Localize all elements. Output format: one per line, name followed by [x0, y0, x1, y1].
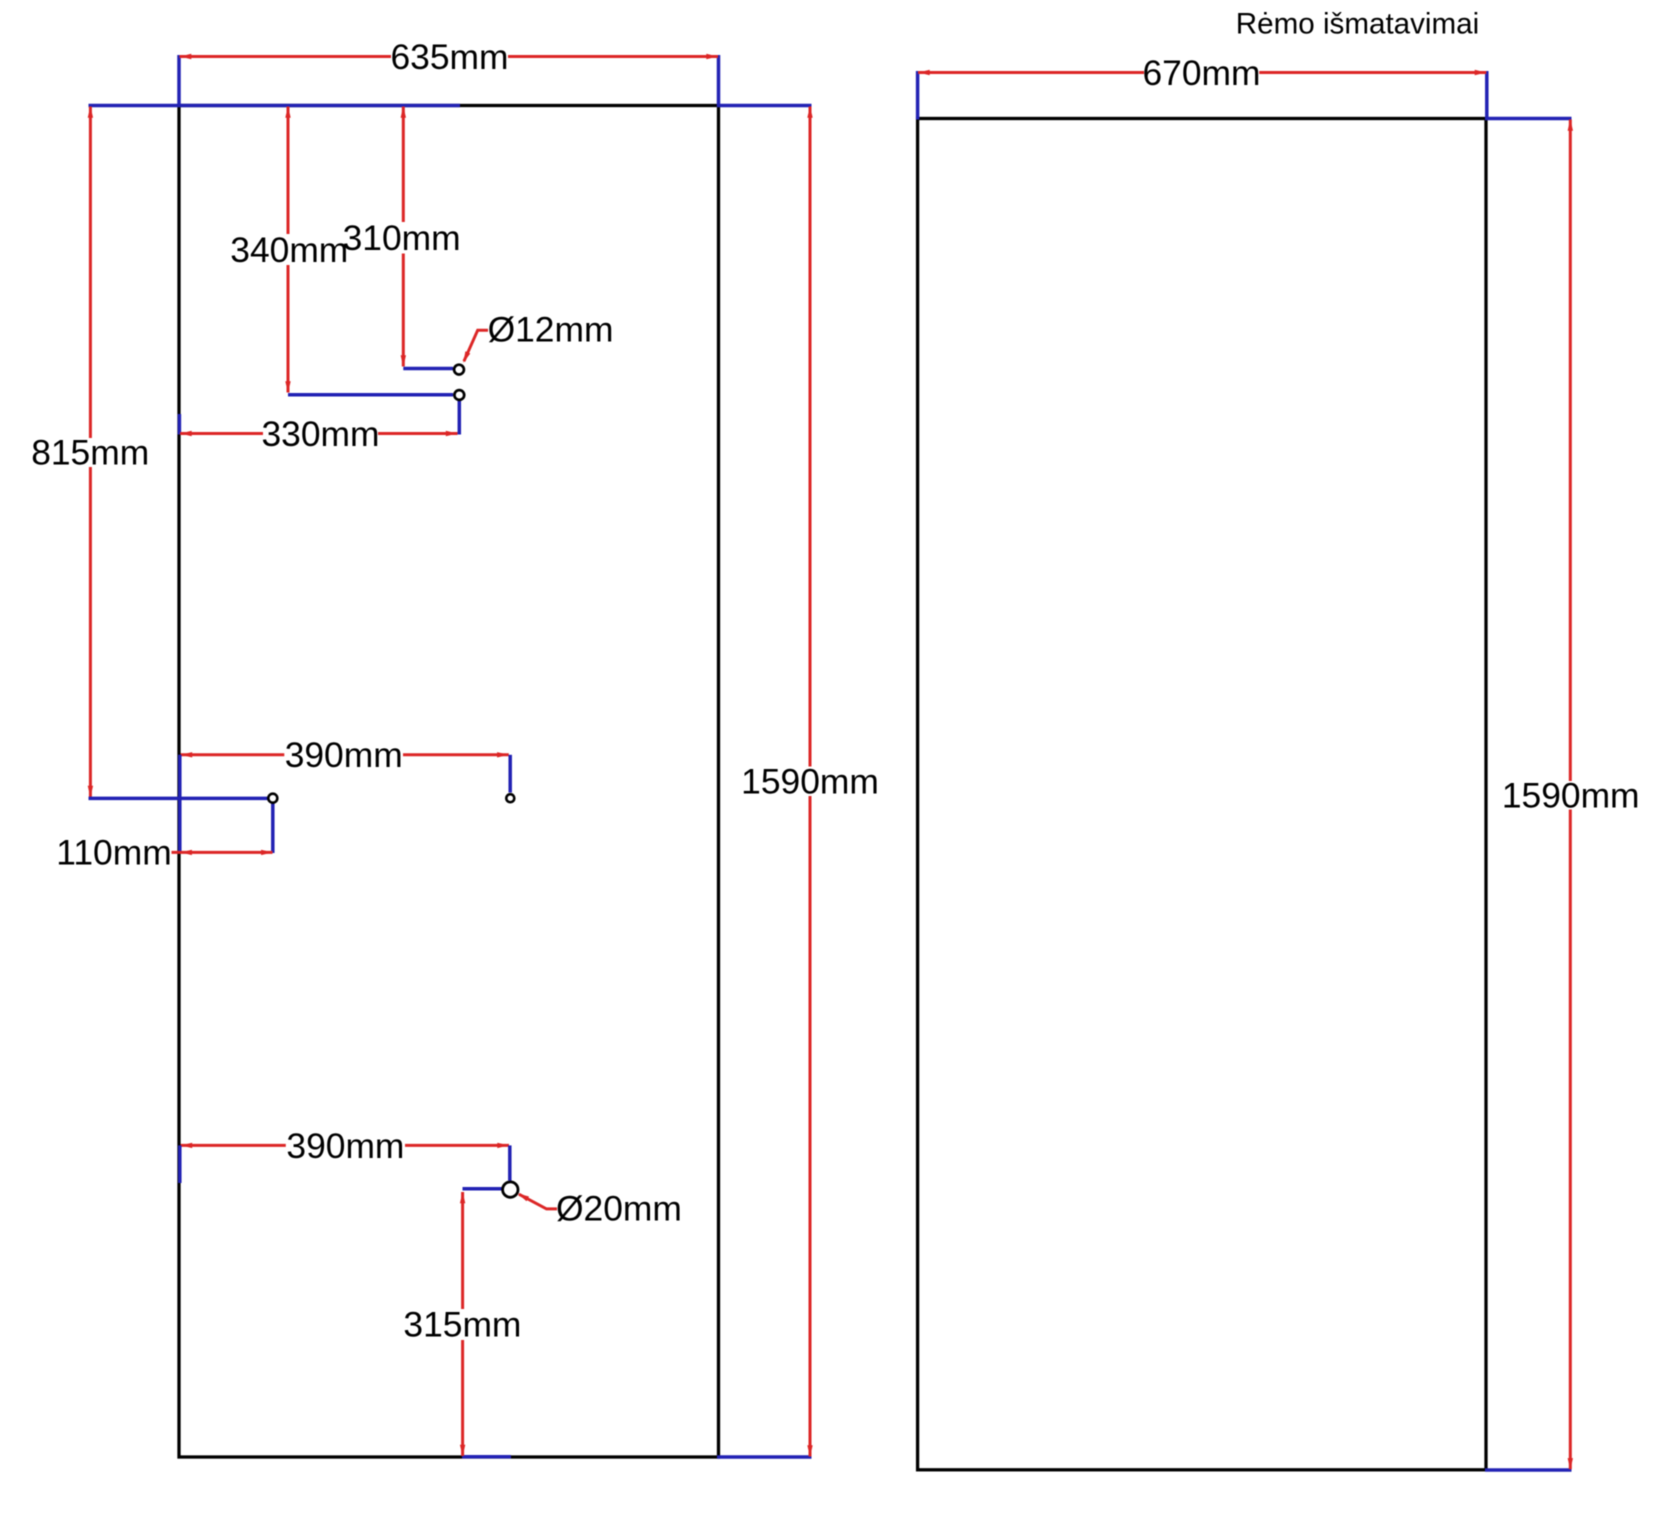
dimension 340mm (red vertical to second hole row)	[287, 107, 290, 235]
extension line (blue) middle horizontal from 815mm dim to hinge hole	[89, 797, 269, 801]
leader for O20mm label (red)	[519, 1194, 557, 1209]
svg-text:1590mm: 1590mm	[741, 761, 879, 801]
extension line (blue) vertical from hinge hole down to 110mm dim	[271, 803, 275, 853]
extension line (blue) from 340mm dim to hole O12 lower	[288, 393, 453, 397]
svg-text:670mm: 670mm	[1142, 53, 1260, 93]
dimension 815mm (red, left vertical)	[89, 107, 92, 439]
extension line (blue) vertical on left edge from 390mm to 110mm dim	[178, 755, 182, 853]
svg-text:Rėmo išmatavimai: Rėmo išmatavimai	[1236, 8, 1479, 41]
extension line (blue) right vertical for 635mm dim	[717, 55, 721, 107]
svg-text:Ø12mm: Ø12mm	[488, 309, 614, 349]
svg-text:110mm: 110mm	[56, 833, 171, 873]
extension line (blue) from hole O12 lower down to 330mm dim	[458, 400, 462, 435]
hole O12 lower (black circle)	[454, 390, 464, 400]
dimension 315mm (red vertical)	[461, 1192, 464, 1309]
svg-text:635mm: 635mm	[390, 37, 508, 77]
extension line (blue) left vertical for 635mm dim	[177, 55, 181, 107]
svg-text:340mm: 340mm	[230, 230, 348, 270]
leader for O12mm label (red)	[464, 330, 488, 361]
svg-text:390mm: 390mm	[285, 735, 403, 775]
right panel: frame outline rectangle	[918, 119, 1486, 1470]
left panel: drilled-door outline rectangle	[179, 106, 719, 1458]
extension line bottom-right (blue) to 1590mm dim	[717, 1455, 812, 1459]
extension line (blue) left vertical for 670mm dim	[916, 71, 920, 120]
dimension 635mm (red, top of left panel)	[180, 55, 392, 58]
dimension 390mm lower (red horizontal)	[181, 1144, 286, 1147]
dimension 670mm (red, top of right panel)	[918, 71, 1144, 74]
extension line (blue) short stub below lower 390mm dim on left edge	[178, 1145, 182, 1183]
dimension 310mm (red vertical to first hole row)	[402, 107, 405, 223]
extension line (blue) horizontal from 315mm dim to O20 hole	[463, 1187, 502, 1191]
extension line (blue) top-right horizontal to right 1590mm dim	[1485, 117, 1572, 121]
hole O20 (black circle)	[503, 1182, 518, 1197]
svg-text:390mm: 390mm	[286, 1126, 404, 1166]
svg-text:310mm: 310mm	[343, 218, 461, 258]
dimension 110mm (red horizontal)	[172, 851, 273, 854]
dimension 1590mm right panel (red vertical)	[1569, 120, 1572, 782]
hole right middle (black circle)	[506, 794, 514, 802]
svg-text:Ø20mm: Ø20mm	[556, 1189, 682, 1229]
svg-text:330mm: 330mm	[261, 414, 379, 454]
dimension 1590mm left panel (red vertical)	[809, 107, 812, 767]
extension line top-left (blue) along top edge to 815mm dim	[89, 104, 461, 108]
dimension 330mm (red horizontal)	[180, 432, 263, 435]
extension line top-right (blue) to 1590mm dim	[717, 104, 812, 108]
svg-text:315mm: 315mm	[403, 1305, 521, 1345]
extension line (blue) vertical from lower 390mm dim to O20 hole	[508, 1145, 512, 1180]
svg-text:815mm: 815mm	[31, 433, 149, 473]
extension line (blue) from 310mm dim to hole O12 upper	[403, 367, 453, 371]
extension line (blue) right vertical for 670mm dim	[1485, 71, 1489, 120]
extension line (blue) short stub above 330mm dim on left edge	[178, 414, 182, 435]
extension line (blue) vertical from 390mm dim to hole at 510	[508, 755, 512, 793]
hole O12 upper (black circle)	[454, 365, 464, 375]
dimension 390mm upper (red horizontal)	[181, 753, 285, 756]
extension line bottom (blue) under 315mm hole	[462, 1455, 511, 1459]
hinge hole left (black circle)	[268, 794, 277, 803]
extension line (blue) bottom-right horizontal to right 1590mm dim	[1485, 1468, 1572, 1472]
svg-text:1590mm: 1590mm	[1502, 776, 1640, 816]
